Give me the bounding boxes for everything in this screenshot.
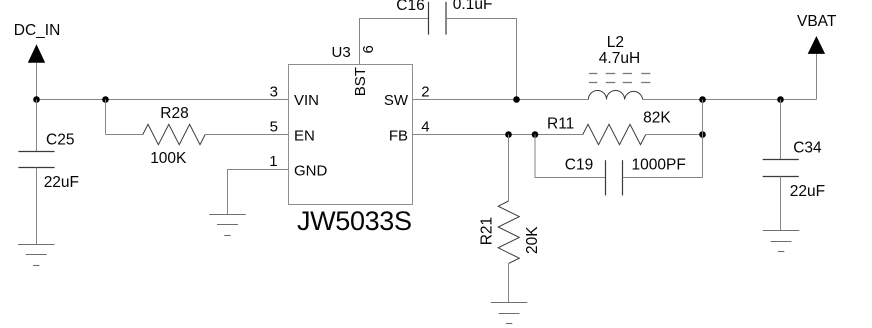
wire C16 to SW node (446, 19, 517, 100)
svg-text:EN: EN (294, 128, 315, 145)
svg-text:GND: GND (294, 163, 328, 180)
wire input rail down to C25 (36, 100, 38, 152)
svg-text:BST: BST (352, 67, 369, 96)
inductor L2 core dashes row 1 (589, 73, 650, 75)
inductor L2 core dashes row 2 (589, 82, 650, 84)
resistor R21 (498, 201, 519, 263)
svg-text:R11: R11 (547, 115, 574, 132)
wire input rail horizontal to VIN pin (37, 99, 289, 101)
ground C34 (763, 231, 800, 252)
svg-text:SW: SW (384, 92, 409, 109)
svg-text:U3: U3 (332, 44, 351, 61)
svg-text:4.7uH: 4.7uH (599, 50, 640, 67)
svg-text:22uF: 22uF (44, 174, 79, 191)
junction output at feedback column (699, 96, 706, 103)
junction FB at C19 branch (532, 131, 539, 138)
svg-text:VIN: VIN (294, 92, 319, 109)
wire C19 branch down and right (535, 135, 606, 178)
wire C34 to ground (780, 177, 782, 231)
capacitor C19 (606, 160, 623, 195)
wire C19 to output column (623, 177, 703, 179)
svg-text:C25: C25 (46, 132, 74, 149)
svg-text:82K: 82K (643, 110, 671, 127)
svg-text:4: 4 (421, 119, 429, 136)
wire EN branch to R28 (106, 134, 143, 136)
svg-text:R28: R28 (160, 105, 188, 122)
wire GND pin to ground (228, 170, 289, 215)
wire R11 to output column (646, 134, 703, 136)
svg-text:1: 1 (269, 153, 277, 170)
IC U3 body JW5033S (289, 65, 413, 205)
junction R11 right at output column (699, 131, 706, 138)
resistor R11 (583, 124, 646, 144)
svg-text:L2: L2 (607, 34, 624, 51)
svg-text:R21: R21 (478, 217, 495, 245)
wire FB pin to R11 (413, 134, 583, 136)
svg-text:1000PF: 1000PF (632, 156, 686, 173)
inductor L2 (588, 90, 642, 99)
wire EN branch vertical (105, 100, 107, 135)
svg-text:3: 3 (270, 83, 278, 100)
junction FB at R21 (505, 131, 512, 138)
junction input rail at EN branch (102, 96, 109, 103)
svg-text:0.1uF: 0.1uF (453, 0, 493, 13)
ground R21 (491, 303, 528, 324)
wire output column vertical (702, 100, 704, 178)
svg-text:22uF: 22uF (790, 183, 825, 200)
svg-text:20K: 20K (524, 226, 541, 254)
wire BST pin up and over to C16 (360, 19, 429, 65)
wire DC_IN arrow to input rail (36, 63, 38, 100)
ground U3 GND pin (209, 215, 246, 236)
junction output at C34 (777, 96, 784, 103)
wire C25 to ground (36, 168, 38, 245)
svg-text:2: 2 (421, 83, 429, 100)
power arrow VBAT (808, 36, 825, 54)
svg-text:C34: C34 (793, 140, 822, 157)
resistor R28 (143, 124, 205, 144)
wire FB down to R21 (508, 135, 510, 202)
ground C25 (18, 245, 55, 266)
capacitor C25 (18, 152, 54, 168)
wire C34 branch down (780, 100, 782, 160)
wire VBAT vertical (816, 54, 818, 100)
wire L2 to VBAT corner (643, 99, 817, 101)
svg-text:6: 6 (360, 45, 377, 53)
svg-text:FB: FB (389, 128, 408, 145)
capacitor C34 (763, 160, 799, 177)
svg-text:100K: 100K (150, 150, 187, 167)
svg-text:DC_IN: DC_IN (14, 22, 61, 39)
wire R28 to EN pin (205, 134, 288, 136)
capacitor C16 (429, 2, 447, 35)
junction SW node (513, 96, 520, 103)
wire R21 to ground (508, 263, 510, 302)
junction input rail at DC_IN (33, 96, 40, 103)
svg-text:C19: C19 (565, 157, 593, 174)
svg-text:C16: C16 (396, 0, 424, 14)
svg-text:VBAT: VBAT (797, 13, 837, 30)
wire SW pin to L2 (413, 99, 589, 101)
svg-text:5: 5 (270, 119, 278, 136)
power arrow DC_IN (28, 44, 45, 63)
svg-text:JW5033S: JW5033S (297, 206, 412, 236)
